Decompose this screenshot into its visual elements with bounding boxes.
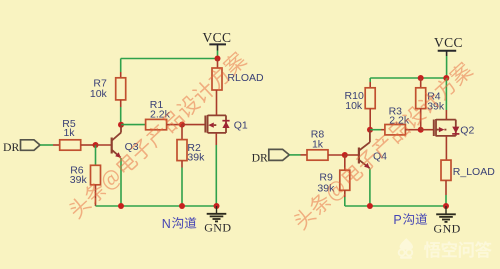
label R6 39k — [70, 164, 88, 186]
svg-text:1k: 1k — [63, 127, 75, 139]
wire Q2 source to top bus — [445, 78, 447, 120]
wire top bus (left) — [121, 59, 218, 73]
resistor R10 — [365, 88, 375, 109]
power symbol VCC (right) — [434, 35, 463, 56]
transistor Q1 N-MOSFET — [205, 115, 229, 133]
node gate (R1/R2/Q1 gate) — [179, 122, 185, 128]
wire node A to R1 — [121, 124, 146, 126]
svg-text:VCC: VCC — [434, 35, 463, 50]
wire bottom bus (right) — [345, 205, 446, 207]
svg-text:10k: 10k — [345, 100, 363, 112]
watermark left (头条@电子产品设计方案) — [66, 49, 250, 221]
svg-text:VCC: VCC — [203, 30, 232, 45]
label R3 2.2k — [389, 106, 410, 127]
wire R9 bottom to bus — [344, 190, 346, 206]
resistor R9 — [340, 170, 350, 190]
svg-text:P: P — [393, 213, 401, 227]
node VCC junction (left) — [215, 56, 221, 62]
wire R10 bottom to Q4 collector node — [369, 109, 371, 130]
svg-text:Q2: Q2 — [460, 125, 474, 137]
node top bus / R4 — [418, 75, 424, 81]
wire node C to R3 — [370, 129, 385, 131]
logo watermark 悟空问答 — [399, 238, 492, 259]
resistor RLOAD — [212, 68, 222, 90]
svg-text:DR: DR — [3, 141, 19, 154]
transistor Q3 NPN — [96, 125, 122, 158]
resistor R4 — [416, 88, 426, 109]
svg-text:39k: 39k — [187, 151, 205, 163]
svg-text:DR: DR — [252, 152, 268, 165]
svg-text:39k: 39k — [317, 183, 335, 195]
resistor R2 — [177, 140, 187, 161]
ground GND (left) — [204, 206, 231, 235]
resistor R1 — [146, 119, 167, 129]
svg-text:10k: 10k — [90, 88, 108, 100]
wire R3 to gate node — [405, 129, 420, 131]
wire DR to R8 — [289, 154, 307, 156]
label R8 1k — [311, 129, 325, 151]
node B (R5/R6/Q3 base) — [93, 142, 99, 148]
resistor R8 — [307, 150, 328, 160]
resistor R5 — [60, 140, 81, 150]
svg-text:Q4: Q4 — [373, 150, 387, 162]
wire R10 top pin — [369, 82, 371, 88]
label P-channel (P沟道) — [393, 213, 427, 227]
node bus/Q3 emitter — [118, 203, 124, 209]
node C (R10/R3/Q4 collector) — [367, 127, 373, 133]
resistor R3 — [385, 125, 406, 135]
svg-text:Q1: Q1 — [234, 120, 248, 132]
label R10 10k — [345, 90, 364, 112]
label R1 2.2k — [150, 99, 171, 120]
svg-text:R_LOAD: R_LOAD — [453, 166, 495, 178]
svg-text:RLOAD: RLOAD — [227, 72, 264, 84]
wire R_LOAD bottom to bus — [445, 180, 447, 206]
transistor Q4 NPN — [345, 130, 370, 169]
wire R2 bottom to bus — [181, 161, 183, 206]
port DR (left) — [3, 140, 40, 154]
node gate (R3/R4/Q2 gate) — [418, 127, 424, 133]
wire R6 bottom to bus — [95, 185, 97, 206]
svg-text:GND: GND — [434, 221, 461, 235]
node D (R8/R9/Q4 base) — [342, 152, 348, 158]
wire gate lead Q2 — [421, 129, 434, 131]
wire Q3 emitter to bus — [120, 158, 122, 206]
wire R2 top pin — [181, 125, 183, 140]
wire node B to R6 — [95, 145, 97, 165]
wire Q1 source to bus — [215, 133, 217, 206]
node bus/GND (right) — [443, 203, 449, 209]
node A (R7/R1/Q3 collector) — [118, 122, 124, 128]
port DR (right) — [252, 149, 290, 164]
node bus/R2 — [179, 203, 185, 209]
wire VCC stem (left) — [217, 51, 219, 59]
node bus/GND — [214, 203, 220, 209]
label R9 39k — [317, 172, 335, 195]
wire RLOAD top pin — [217, 59, 219, 69]
wire R1 to gate node — [167, 124, 182, 126]
resistor R6 — [91, 165, 101, 185]
svg-text:1k: 1k — [312, 138, 324, 150]
wire top bus (right) — [370, 78, 446, 82]
wire VCC stem (right) — [446, 56, 448, 78]
svg-text:GND: GND — [204, 221, 231, 235]
transistor Q2 P-MOSFET — [434, 119, 460, 136]
node bus/Q4 emitter — [367, 203, 373, 209]
wire R8 to node D — [328, 154, 345, 156]
label R5 1k — [62, 118, 76, 139]
node top bus / VCC (right) — [443, 75, 449, 81]
label R4 39k — [427, 90, 445, 112]
ground GND (right) — [434, 206, 461, 235]
wire RLOAD to Q1 drain — [216, 90, 218, 115]
power symbol VCC (left) — [203, 30, 232, 51]
wire R7 top pin — [120, 72, 122, 78]
resistor R7 — [116, 78, 126, 100]
wire bottom bus (left) — [96, 205, 217, 207]
svg-text:N: N — [162, 217, 171, 231]
resistor R_LOAD — [441, 160, 451, 180]
watermark right (头条@电子产品设计方案) — [291, 60, 476, 233]
wire Q2 drain to R_LOAD — [445, 136, 447, 160]
wire R5 to node B — [81, 144, 96, 146]
svg-text:39k: 39k — [70, 174, 88, 186]
wire R7 bottom to node A — [120, 100, 122, 125]
label N-channel (N沟道) — [162, 217, 197, 231]
wire gate lead Q1 — [182, 124, 205, 126]
wire Q4 emitter to bus — [369, 169, 371, 207]
label R7 10k — [90, 77, 108, 100]
wire node D to R9 — [344, 155, 346, 170]
wire DR to R5 — [40, 144, 60, 146]
wire R4 bottom to gate node — [420, 109, 422, 130]
label R2 39k — [187, 142, 205, 163]
wire R4 top pin — [420, 78, 422, 88]
